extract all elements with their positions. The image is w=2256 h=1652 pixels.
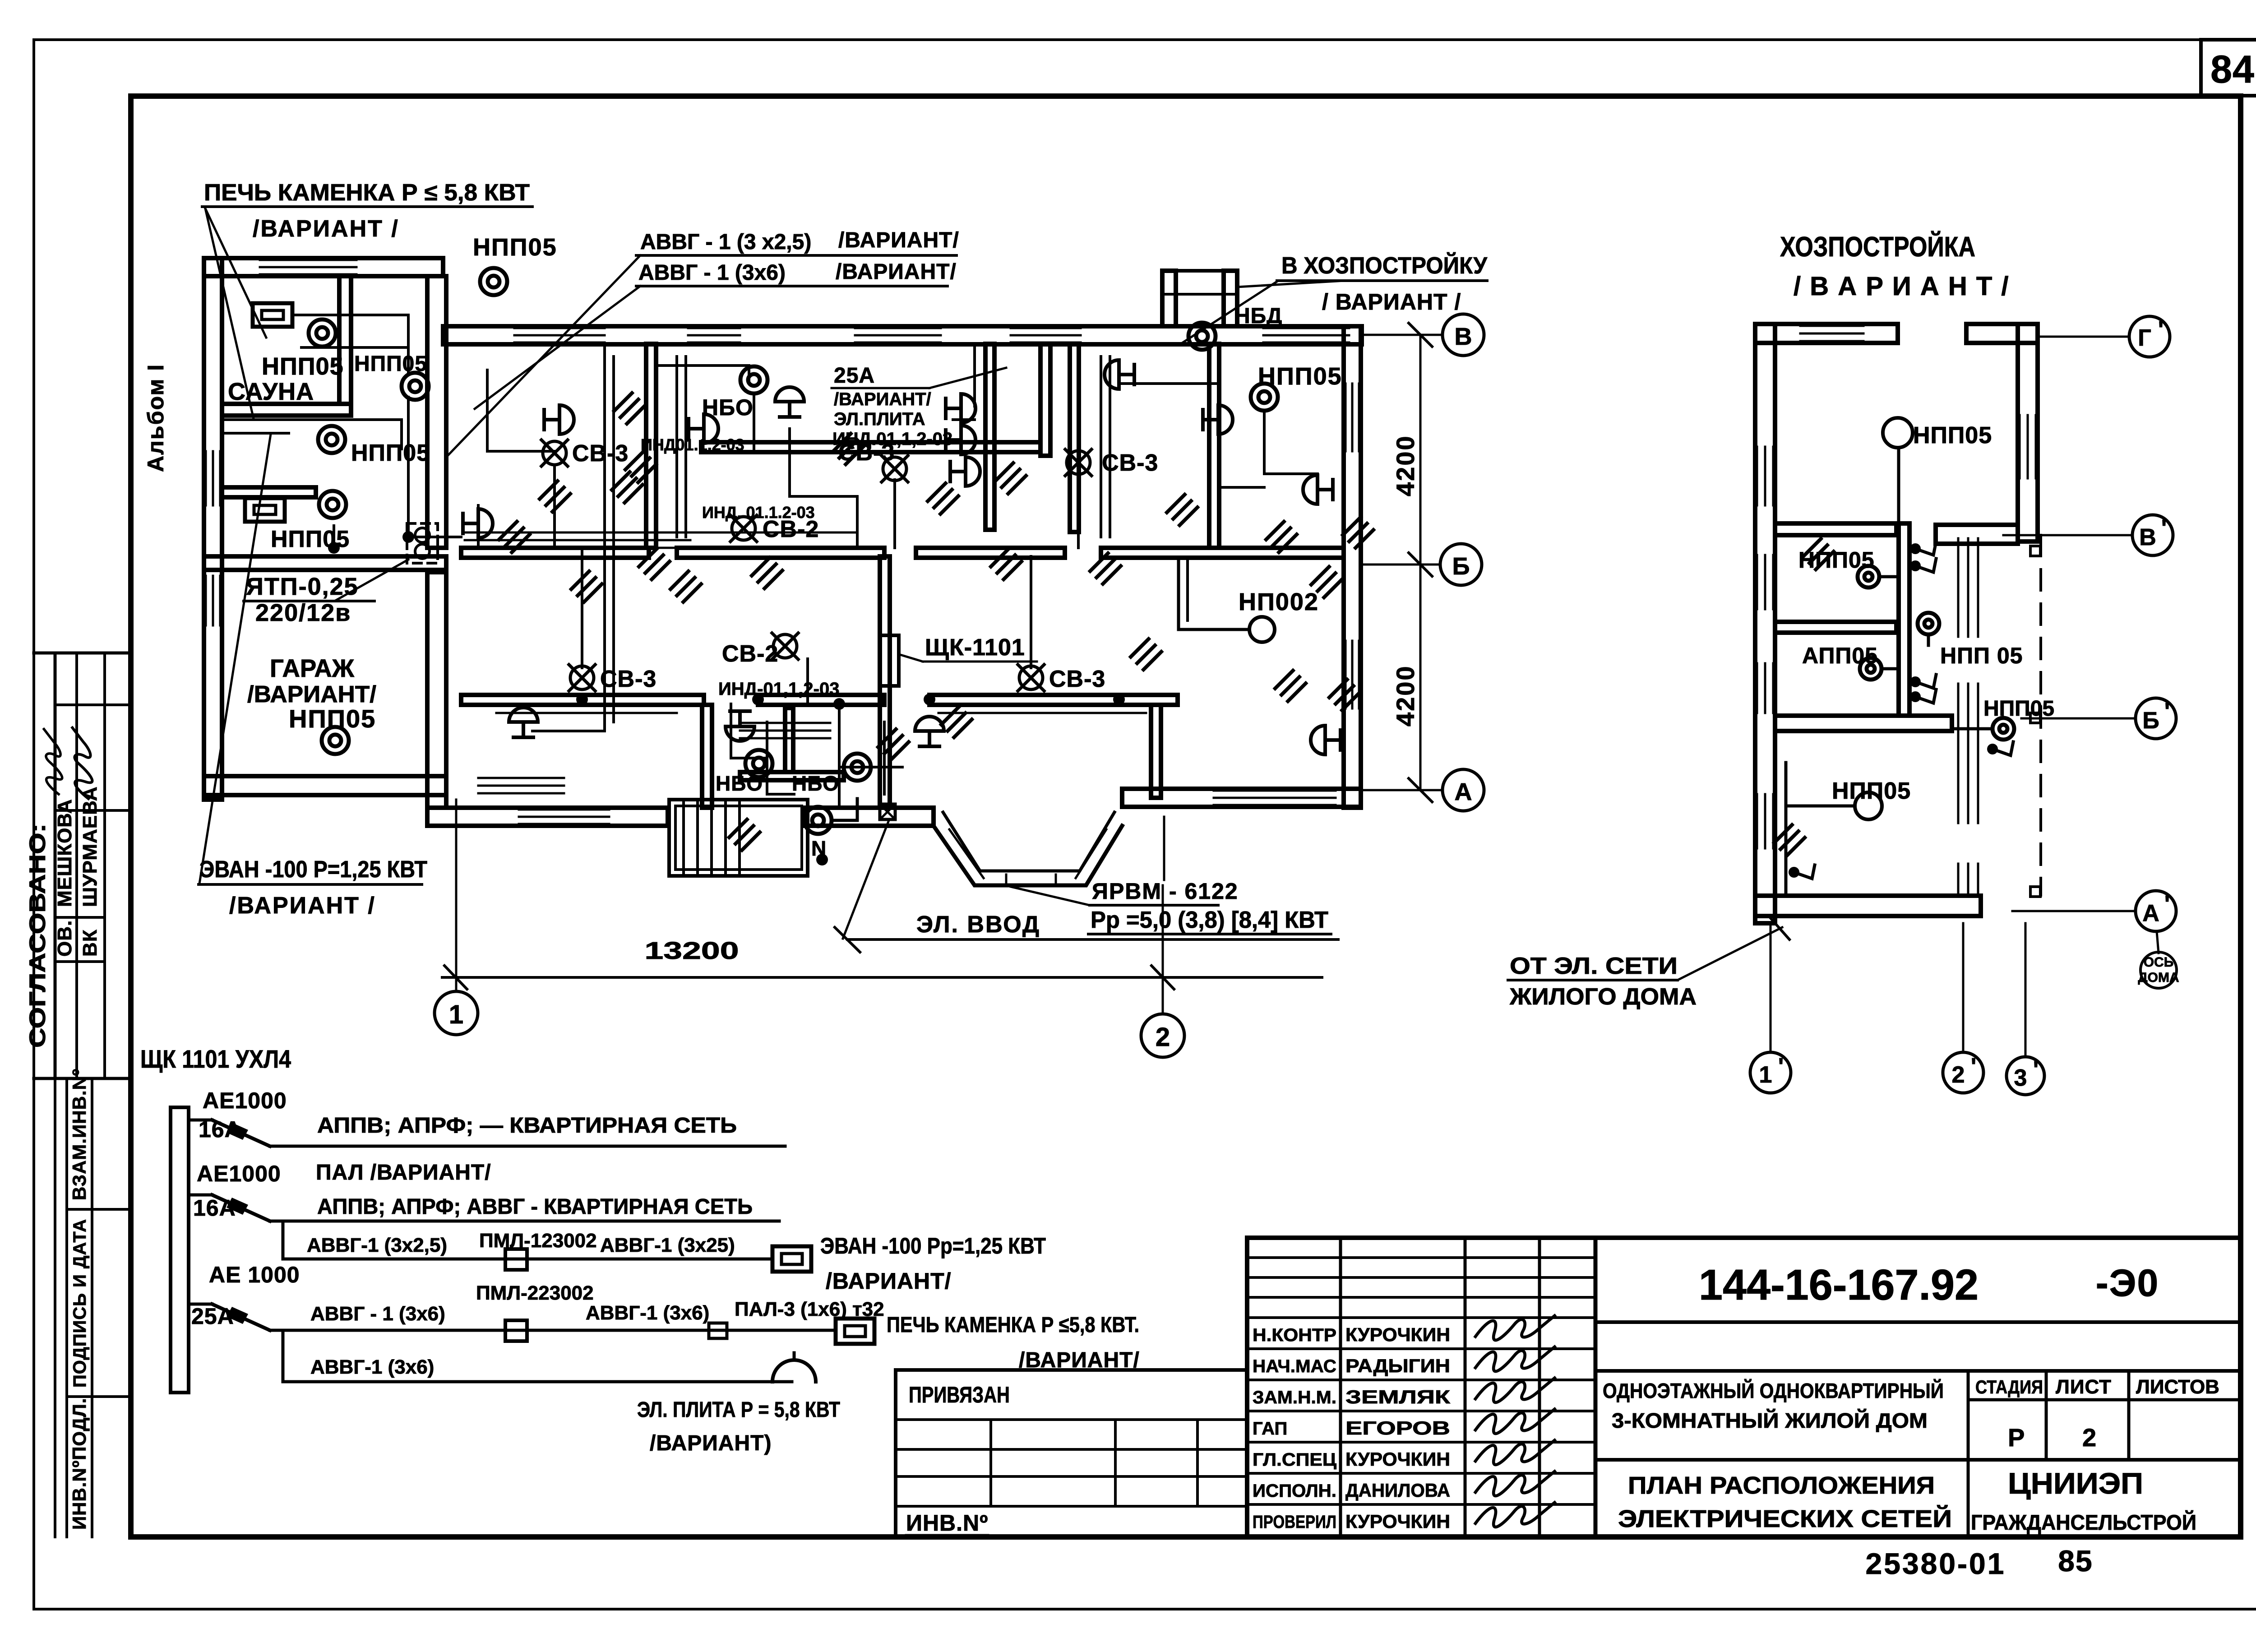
svg-text:Б: Б [2142, 708, 2160, 734]
signature ДАНИЛОВА [1475, 1461, 1555, 1503]
heater ПЕЧЬ КАМЕНКА [836, 1319, 874, 1344]
svg-text:': ' [1971, 1054, 1977, 1080]
wires sauna area [301, 347, 408, 375]
feeder 3 branch эл.плита [283, 1330, 792, 1382]
svg-text:ДОМА: ДОМА [2138, 970, 2179, 985]
svg-text:': ' [2158, 317, 2164, 343]
svg-text:84: 84 [2210, 48, 2255, 91]
svg-text:АЕ1000: АЕ1000 [197, 1161, 281, 1186]
axis 2 [1162, 885, 1164, 1014]
sauna partition walls [339, 276, 351, 404]
socket X9 [509, 708, 538, 737]
bay window [934, 826, 1122, 885]
svg-text:ЭЛ. ВВОД: ЭЛ. ВВОД [916, 912, 1040, 938]
lamp НПП05 L4 [319, 491, 346, 518]
svg-text:25А: 25А [834, 364, 875, 388]
svg-text:НПП 05: НПП 05 [1940, 643, 2023, 668]
axis А [1361, 789, 1443, 791]
svg-text:ПРОВЕРИЛ: ПРОВЕРИЛ [1253, 1512, 1336, 1532]
kitchen wires [655, 366, 749, 380]
svg-text:ЗЕМЛЯК: ЗЕМЛЯК [1345, 1386, 1450, 1407]
svg-text:ЩК-1101: ЩК-1101 [925, 634, 1025, 661]
wire hatch mark H5 [833, 434, 864, 464]
svg-text:ШУРМАЕВА: ШУРМАЕВА [79, 787, 101, 907]
signature ЗЕМЛЯК [1475, 1367, 1555, 1410]
wire hatch mark H4 [639, 549, 670, 579]
svg-text:ИНД-01,1,2-03: ИНД-01,1,2-03 [718, 679, 839, 699]
annex outer walls [204, 258, 443, 276]
dashed axis line [2039, 535, 2042, 895]
ЩК-1101 panel [880, 635, 899, 686]
lamp НПП05 L11 [844, 754, 871, 781]
signatures sidebar [33, 729, 70, 794]
svg-text:ОТ ЭЛ. СЕТИ: ОТ ЭЛ. СЕТИ [1510, 953, 1678, 979]
contactor box [505, 1249, 527, 1270]
lamp НПП05 L12 [804, 807, 832, 834]
svg-text:ПОДПИСЬ И ДАТА: ПОДПИСЬ И ДАТА [70, 1219, 90, 1388]
outbuilding lamps [1883, 418, 1913, 448]
svg-text:ИНВ.NºПОДЛ.: ИНВ.NºПОДЛ. [69, 1397, 90, 1530]
axis А прим [2012, 910, 2135, 912]
wire hatch mark H7 [991, 549, 1022, 579]
svg-text:АППВ; АПРФ; — КВАРТИРНАЯ: АППВ; АПРФ; — КВАРТИРНАЯ СЕТЬ [317, 1114, 737, 1138]
axis 1 прим [1770, 923, 1772, 1051]
svg-text:ПЕЧЬ КАМЕНКА Р ≤5,8 КВТ.: ПЕЧЬ КАМЕНКА Р ≤5,8 КВТ. [887, 1313, 1139, 1337]
axis Б [1361, 564, 1441, 566]
sidebar table ВЗАМ/ПОДПИСЬ/ИНВ [54, 1078, 56, 1537]
svg-text:2: 2 [2082, 1423, 2097, 1452]
svg-text:НПП05: НПП05 [1983, 697, 2054, 721]
svg-text:85: 85 [2058, 1544, 2093, 1578]
svg-text:АПП05: АПП05 [1802, 643, 1878, 668]
lamp НПП05 L7 [740, 366, 767, 393]
wires hall [767, 722, 794, 794]
svg-text:НПП05: НПП05 [1258, 363, 1342, 390]
svg-text:ОДНОЭТАЖНЫЙ ОДНОКВАРТИРНЫЙ: ОДНОЭТАЖНЫЙ ОДНОКВАРТИРНЫЙ [1603, 1379, 1944, 1402]
ЭВАН box washroom [245, 498, 285, 522]
svg-text:/ВАРИАНТ /: /ВАРИАНТ / [253, 216, 399, 242]
wire hatch mark H17 [670, 571, 701, 602]
svg-text:ЭЛ.ПЛИТА: ЭЛ.ПЛИТА [834, 409, 925, 429]
axis Б прим [2021, 717, 2135, 720]
lamp НПП05 L9 [1251, 384, 1278, 411]
wire hatch mark H2 [625, 452, 656, 482]
svg-text:МЕШКОВА: МЕШКОВА [54, 799, 76, 907]
porch with stairs [669, 800, 808, 876]
signature ЕГОРОВ [1475, 1398, 1555, 1441]
svg-text:АВВГ-1 (3х6): АВВГ-1 (3х6) [586, 1302, 709, 1324]
svg-text:СТАДИЯ: СТАДИЯ [1975, 1376, 2043, 1397]
socket X1 [463, 509, 493, 538]
axis 3 прим [2025, 923, 2027, 1056]
svg-text:АЕ1000: АЕ1000 [203, 1088, 287, 1113]
svg-text:ПМЛ-223002: ПМЛ-223002 [476, 1282, 594, 1304]
svg-text:ЭВАН -100 Рр=1,25 КВТ: ЭВАН -100 Рр=1,25 КВТ [820, 1233, 1046, 1259]
wire hatch mark H13 [540, 481, 570, 512]
annex middle partition [222, 487, 316, 497]
svg-text:СОГЛАСОВАНО:: СОГЛАСОВАНО: [25, 824, 50, 1048]
svg-text:ПАЛ /ВАРИАНТ/: ПАЛ /ВАРИАНТ/ [316, 1161, 491, 1185]
switch СВ S7 [882, 456, 908, 482]
svg-text:ОВ.: ОВ. [54, 920, 76, 957]
lamp НПП05 L8 [1188, 323, 1216, 350]
svg-text:ЕГОРОВ: ЕГОРОВ [1345, 1417, 1450, 1439]
stamp right part [1595, 1320, 2241, 1324]
outbuilding switch mark SW5 [1987, 744, 1998, 754]
svg-text:КУРОЧКИН: КУРОЧКИН [1345, 1324, 1450, 1345]
svg-text:/ВАРИАНТ /: /ВАРИАНТ / [229, 893, 376, 919]
wire hatch mark H18 [499, 522, 530, 552]
svg-text:/ВАРИАНТ/: /ВАРИАНТ/ [1019, 1348, 1140, 1372]
hatch marks outbuilding [1803, 539, 1834, 569]
junction box dot J5 [1113, 694, 1125, 705]
svg-text:144-16-167.92: 144-16-167.92 [1699, 1261, 1979, 1309]
title block stamp [1247, 1236, 2241, 1240]
socket X5 [946, 426, 975, 454]
outbuilding switch mark SW3 [1910, 676, 1921, 687]
outbuilding switch mark SW4 [1910, 691, 1921, 702]
bottom rooms wires [581, 548, 583, 668]
svg-text:ГАРАЖ: ГАРАЖ [270, 654, 354, 682]
socket X2 [689, 414, 718, 443]
axis В [1361, 334, 1443, 336]
svg-text:НБД: НБД [1234, 304, 1282, 328]
lamp НПП05 L5 [322, 727, 349, 754]
socket X13 [544, 405, 574, 434]
wire hatch mark H16 [1311, 567, 1342, 597]
bottom-half partitions [702, 705, 712, 808]
svg-text:': ' [2164, 699, 2171, 725]
svg-text:НПП05: НПП05 [262, 353, 344, 380]
socket X14 [1203, 405, 1233, 434]
svg-text:СВ-3: СВ-3 [1049, 666, 1105, 692]
outbuilding switch mark SW6 [1789, 867, 1799, 878]
svg-text:1: 1 [449, 1000, 463, 1029]
wire hatch mark H1 [614, 393, 645, 424]
outbuilding walls [1755, 324, 1775, 923]
svg-text:ХОЗПОСТРОЙКА: ХОЗПОСТРОЙКА [1780, 231, 1975, 263]
leader печь каменка [205, 208, 266, 338]
switch СВ S2 [1065, 449, 1091, 476]
ось дома circle [2157, 931, 2159, 953]
svg-text:НПП05: НПП05 [354, 352, 427, 376]
hall closet [740, 722, 830, 724]
wire hatch mark H3 [571, 571, 602, 602]
socket X11 [915, 717, 944, 746]
svg-text:АВВГ - 1 (3х6): АВВГ - 1 (3х6) [310, 1303, 445, 1325]
svg-text:ЛИСТ: ЛИСТ [2056, 1376, 2112, 1398]
svg-text:ИНД01.1,2-03: ИНД01.1,2-03 [641, 435, 744, 454]
main house bottom wall [427, 808, 668, 826]
wire hatch mark H14 [1090, 553, 1121, 584]
svg-text:НБО: НБО [702, 395, 754, 420]
svg-text:ЭЛЕКТРИЧЕСКИХ СЕТЕЙ: ЭЛЕКТРИЧЕСКИХ СЕТЕЙ [1618, 1505, 1952, 1532]
svg-text:Альбом I: Альбом I [143, 364, 168, 472]
switch СВ S5 [1018, 665, 1044, 691]
socket X3 [775, 387, 804, 417]
svg-text:КУРОЧКИН: КУРОЧКИН [1345, 1511, 1450, 1532]
axis В прим [2003, 534, 2132, 537]
svg-text:2: 2 [1156, 1023, 1170, 1052]
junction box dot J3 [924, 694, 935, 705]
svg-text:НПП05: НПП05 [473, 234, 557, 261]
outbuilding inner partitions [1775, 523, 1896, 535]
svg-text:ПРИВЯЗАН: ПРИВЯЗАН [909, 1382, 1010, 1407]
socket X10 [726, 711, 754, 741]
wire hatch mark H15 [729, 819, 760, 850]
wire hatch mark H22 [1343, 517, 1373, 548]
svg-text:4200: 4200 [1391, 435, 1419, 496]
outbuilding switch mark SW1 [1910, 543, 1921, 554]
lamp НПП05 L1 [309, 319, 336, 347]
svg-text:ИНД. 01.1.2-03: ИНД. 01.1.2-03 [702, 503, 815, 522]
svg-text:ИНВ.Nº: ИНВ.Nº [906, 1510, 988, 1536]
svg-text:НПП05: НПП05 [351, 440, 430, 466]
svg-text:ГЛ.СПЕЦ: ГЛ.СПЕЦ [1253, 1450, 1336, 1470]
svg-text:N: N [811, 837, 827, 860]
svg-text:СВ-2: СВ-2 [722, 641, 778, 667]
svg-text:СВ-3: СВ-3 [1102, 450, 1158, 476]
svg-text:ГРАЖДАНСЕЛЬСТРОЙ: ГРАЖДАНСЕЛЬСТРОЙ [1971, 1510, 2196, 1534]
wire hatch mark H20 [878, 729, 909, 760]
wire hatch mark H11 [941, 707, 972, 737]
dimension 13200 [442, 976, 1322, 979]
svg-text:АВВГ-1 (3х2,5): АВВГ-1 (3х2,5) [307, 1234, 447, 1256]
feeder 3 wire [270, 1329, 835, 1332]
svg-text:2: 2 [1952, 1062, 1966, 1088]
feeder 2 wire [270, 1220, 779, 1223]
signature КУРОЧКИН [1475, 1430, 1555, 1472]
junction box dot J4 [816, 854, 828, 865]
outbuilding wires [1879, 575, 1899, 578]
svg-text:СВ-3: СВ-3 [600, 666, 656, 692]
dashed axis stub D3 [2030, 887, 2040, 897]
svg-text:АППВ; АПРФ; АВВГ - КВАРТИРНАЯ: АППВ; АПРФ; АВВГ - КВАРТИРНАЯ СЕТЬ [317, 1195, 753, 1219]
svg-text:/ВАРИАНТ): /ВАРИАНТ) [650, 1431, 772, 1455]
svg-text:НПП05: НПП05 [1913, 422, 1992, 449]
svg-text:/ В А Р И А Н Т /: / В А Р И А Н Т / [1794, 272, 2010, 301]
feeder 2 branch to ЭВАН-100 [283, 1221, 772, 1259]
svg-text:ЩК 1101 УХЛ4: ЩК 1101 УХЛ4 [140, 1045, 291, 1073]
svg-text:': ' [1778, 1054, 1784, 1080]
socket X8 [1303, 475, 1333, 504]
svg-text:/ВАРИАНТ/: /ВАРИАНТ/ [834, 389, 931, 409]
switch СВ S6 [730, 515, 757, 541]
svg-text:НПП05: НПП05 [289, 704, 376, 733]
svg-text:АЕ 1000: АЕ 1000 [209, 1262, 300, 1287]
svg-text:ЖИЛОГО ДОМА: ЖИЛОГО ДОМА [1509, 984, 1697, 1010]
signature РАДЫГИН [1475, 1336, 1555, 1379]
lamp НПП05 L10 [745, 750, 772, 777]
corridor lower wall [461, 695, 704, 705]
svg-text:': ' [2033, 1057, 2039, 1083]
junction box dot J7 [328, 542, 340, 554]
ЯТП dashed box [407, 523, 438, 563]
svg-text:13200: 13200 [645, 937, 739, 964]
hall small walls [785, 708, 793, 772]
svg-text:А: А [2142, 900, 2160, 926]
svg-text:АВВГ-1 (3х6): АВВГ-1 (3х6) [310, 1356, 434, 1378]
svg-text:СВ-3: СВ-3 [572, 440, 629, 467]
lamp НП002 [1249, 617, 1275, 642]
sidebar table СОГЛАСОВАНО [34, 652, 131, 655]
svg-text:4200: 4200 [1391, 665, 1419, 727]
sheet number box 84 [2201, 40, 2256, 96]
svg-text:АВВГ - 1 (3х6): АВВГ - 1 (3х6) [638, 261, 786, 285]
socket X6 [950, 457, 980, 486]
svg-text:1: 1 [1759, 1062, 1773, 1088]
svg-text:ДАНИЛОВА: ДАНИЛОВА [1345, 1480, 1450, 1501]
axis 1 [455, 800, 458, 991]
dashed axis stub D1 [2030, 546, 2040, 556]
dashed axis stub D2 [2030, 713, 2040, 723]
svg-text:ПЕЧЬ КАМЕНКА Р ≤ 5,8 КВТ: ПЕЧЬ КАМЕНКА Р ≤ 5,8 КВТ [204, 180, 530, 206]
svg-text:Б: Б [1452, 553, 1470, 580]
svg-text:ЗАМ.Н.М.: ЗАМ.Н.М. [1253, 1388, 1336, 1407]
switch СВ S3 [569, 665, 595, 691]
attachment table ПРИВЯЗАН [896, 1368, 1247, 1372]
wires bottom rooms [478, 703, 677, 705]
heater ЭВАН-100 [772, 1246, 811, 1272]
junction box dot J2 [752, 694, 764, 705]
stove symbol [772, 1360, 816, 1382]
svg-text:/ВАРИАНТ/: /ВАРИАНТ/ [836, 260, 957, 284]
svg-text:НАЧ.МАС: НАЧ.МАС [1253, 1356, 1336, 1376]
wire left wall run [532, 347, 605, 731]
lamp НПП05 L2 [402, 373, 429, 400]
svg-text:/ВАРИАНТ/: /ВАРИАНТ/ [838, 228, 959, 252]
bedroom right wires [1264, 411, 1318, 474]
svg-text:-Э0: -Э0 [2096, 1262, 2159, 1304]
svg-text:': ' [2164, 891, 2171, 917]
svg-text:КУРОЧКИН: КУРОЧКИН [1345, 1448, 1450, 1470]
junction box dot J8 [833, 698, 845, 710]
svg-text:НБО: НБО [716, 772, 763, 795]
socket X4 [946, 394, 975, 423]
svg-text:В: В [2139, 524, 2157, 551]
wire hatch mark H24 [995, 463, 1026, 494]
svg-text:АВВГ - 1 (3 х2,5): АВВГ - 1 (3 х2,5) [640, 230, 811, 254]
feeder 1 wire квартирная сеть [270, 1145, 785, 1148]
vertical dim 4200x2 [1419, 335, 1422, 790]
outbuilding switch mark SW2 [1910, 560, 1921, 571]
svg-text:Г: Г [2138, 325, 2152, 351]
svg-text:ВК: ВК [79, 929, 101, 957]
axis Г прим [2038, 336, 2129, 338]
svg-text:/ ВАРИАНТ /: / ВАРИАНТ / [1322, 289, 1461, 315]
svg-text:ПМЛ-123002: ПМЛ-123002 [479, 1230, 597, 1252]
svg-text:220/12в: 220/12в [255, 599, 351, 626]
svg-text:ПЛАН РАСПОЛОЖЕНИЯ: ПЛАН РАСПОЛОЖЕНИЯ [1628, 1472, 1935, 1499]
svg-text:НБО: НБО [792, 772, 839, 795]
svg-text:В: В [1455, 323, 1472, 350]
ЭВАН box sauna [253, 303, 292, 327]
corridor wall [461, 548, 649, 558]
main house top wall [443, 326, 1362, 344]
lamp НПП05 L3 [318, 426, 345, 453]
wire hatch mark H8 [1167, 495, 1197, 525]
svg-text:СВ-3: СВ-3 [838, 440, 895, 466]
svg-text:/ВАРИАНТ/: /ВАРИАНТ/ [247, 681, 376, 708]
extra wires left room [487, 370, 555, 451]
switch СВ S4 [772, 633, 798, 659]
top-half partitions [646, 344, 656, 548]
wire hatch mark H12 [1329, 680, 1360, 710]
junction box dot J1 [402, 531, 414, 543]
switch СВ S1 [541, 440, 568, 466]
signature КУРОЧКИН [1475, 1305, 1555, 1347]
svg-text:АВВГ-1 (3х25): АВВГ-1 (3х25) [600, 1234, 735, 1256]
lamp НПП05 L6 [480, 268, 507, 295]
corridor parallel wires [465, 532, 690, 534]
socket X12 [1311, 726, 1341, 754]
wire hatch mark H6 [928, 483, 958, 514]
svg-text:ИСПОЛН.: ИСПОЛН. [1253, 1481, 1336, 1501]
svg-text:ВЗАМ.ИНВ.Nº: ВЗАМ.ИНВ.Nº [69, 1069, 90, 1200]
svg-text:В ХОЗПОСТРОЙКУ: В ХОЗПОСТРОЙКУ [1281, 252, 1488, 279]
svg-text:ЭЛ. ПЛИТА Р = 5,8 КВТ: ЭЛ. ПЛИТА Р = 5,8 КВТ [637, 1398, 840, 1422]
svg-text:НПП05: НПП05 [271, 526, 350, 552]
эл ввод box [880, 804, 895, 819]
svg-text:РАДЫГИН: РАДЫГИН [1345, 1355, 1450, 1376]
svg-text:Н.КОНТР: Н.КОНТР [1253, 1325, 1336, 1345]
svg-text:3-КОМНАТНЫЙ ЖИЛОЙ ДОМ: 3-КОМНАТНЫЙ ЖИЛОЙ ДОМ [1612, 1409, 1928, 1432]
main house right wall [1344, 326, 1361, 808]
svg-text:Рр =5,0 (3,8) [8,4] КВТ: Рр =5,0 (3,8) [8,4] КВТ [1091, 907, 1328, 933]
svg-text:ГАП: ГАП [1253, 1419, 1287, 1439]
svg-text:3: 3 [2014, 1065, 2028, 1091]
axis 2 прим [1962, 923, 1965, 1051]
svg-text:ЛИСТОВ: ЛИСТОВ [2136, 1376, 2219, 1398]
wire hatch mark H23 [612, 472, 643, 503]
wire hatch mark H19 [1131, 639, 1161, 670]
svg-text:ОСЬ: ОСЬ [2144, 955, 2174, 970]
svg-text:25380-01: 25380-01 [1866, 1547, 2006, 1580]
partition garage/sauna [204, 556, 446, 570]
extra wires top rooms [675, 356, 678, 537]
svg-text:А: А [1455, 778, 1472, 805]
wire hatch mark H9 [1275, 671, 1306, 701]
annex right wall / house left wall [427, 276, 446, 548]
svg-text:Р: Р [2008, 1423, 2025, 1452]
svg-text:': ' [2161, 515, 2168, 541]
svg-text:НП002: НП002 [1239, 588, 1319, 615]
svg-text:/ВАРИАНТ/: /ВАРИАНТ/ [826, 1268, 952, 1294]
svg-text:САУНА: САУНА [228, 378, 314, 405]
socket X7 [1105, 360, 1134, 389]
svg-text:ЯРВМ - 6122: ЯРВМ - 6122 [1092, 879, 1239, 904]
svg-text:ЦНИИЭП: ЦНИИЭП [2008, 1467, 2143, 1500]
wire hatch mark H21 [1266, 522, 1297, 552]
junction box dot J6 [576, 694, 588, 705]
vestibule to outbuilding [1162, 271, 1176, 326]
svg-text:ЭВАН -100 Р=1,25 КВТ: ЭВАН -100 Р=1,25 КВТ [199, 856, 427, 883]
svg-text:НПП05: НПП05 [1832, 778, 1911, 804]
signature КУРОЧКИН [1475, 1492, 1555, 1534]
busbar [171, 1107, 189, 1393]
wire hatch mark H10 [752, 558, 782, 588]
